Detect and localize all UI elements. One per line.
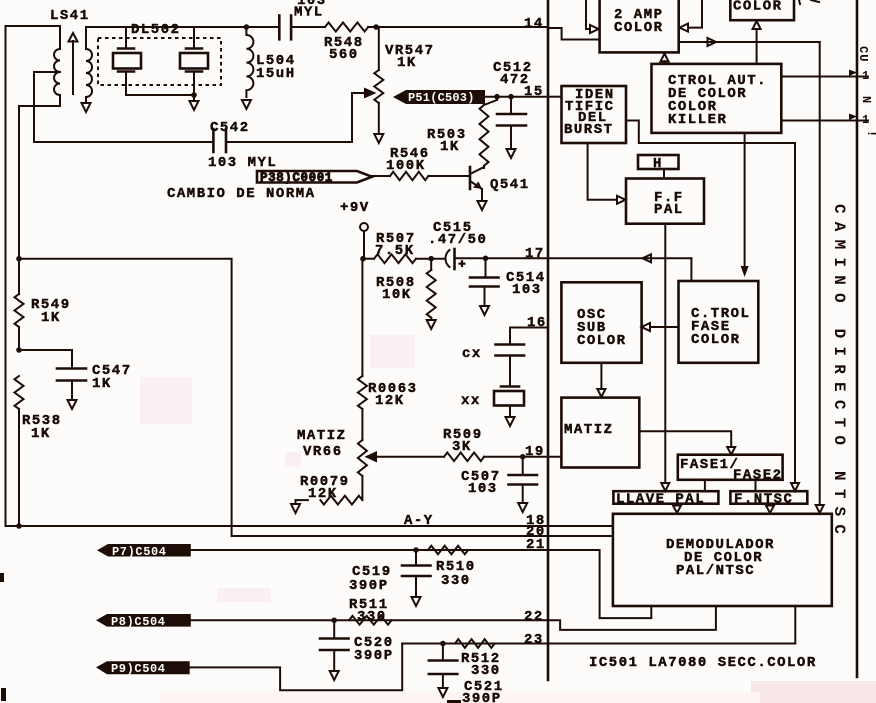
IC501 boundary line xyxy=(547,0,550,680)
junction dot C520 top xyxy=(331,618,337,624)
ground under C519 xyxy=(412,597,421,606)
label R503 1K xyxy=(427,127,467,155)
resistor R508 xyxy=(427,259,436,320)
svg-text:VR66: VR66 xyxy=(303,444,343,460)
wire CTRLAUT to 2AMP bottom with up arrow xyxy=(661,54,669,64)
ground under VR547 xyxy=(374,134,383,143)
label R511 330 xyxy=(349,597,389,625)
label R548 560 xyxy=(324,35,364,63)
label C507 103 xyxy=(461,469,501,497)
connector P51(C503) xyxy=(393,90,485,105)
wire CTROL AUT to C.TROL FASE with solid arrow xyxy=(741,133,749,277)
svg-text:P51(C503): P51(C503) xyxy=(408,91,475,105)
svg-text:COLOR: COLOR xyxy=(733,0,783,15)
svg-text:1: 1 xyxy=(862,69,870,83)
resistor R538 xyxy=(15,376,24,526)
resistor R509 xyxy=(444,453,484,462)
svg-text:!: ! xyxy=(864,130,876,138)
block F.NTSC xyxy=(730,491,807,507)
resistor R548 xyxy=(325,23,368,32)
block H xyxy=(638,155,679,172)
junction dot C507 top xyxy=(520,454,526,460)
svg-text:COLOR: COLOR xyxy=(691,332,741,348)
block 2 AMP COLOR xyxy=(600,0,679,52)
wire pin14 into 2AMP block xyxy=(548,28,600,40)
wire top right into 2AMP with arrow xyxy=(680,0,703,32)
ground under C547 xyxy=(68,400,77,409)
svg-text:LLAVE PAL: LLAVE PAL xyxy=(616,492,705,508)
svg-text:103 MYL: 103 MYL xyxy=(208,155,277,171)
connector P8(C504) xyxy=(96,614,191,629)
label VR547 1K xyxy=(385,43,435,71)
transformer LS41 primary winding xyxy=(54,49,60,95)
resistor R0063 xyxy=(358,259,367,440)
svg-text:N: N xyxy=(859,96,873,104)
wire R507-C515 xyxy=(416,258,444,260)
capacitor C521 xyxy=(429,644,458,687)
ground under C521 xyxy=(438,688,447,697)
svg-text:1K: 1K xyxy=(440,139,460,155)
block COLOR (top, cut off) xyxy=(730,0,794,20)
capacitor C542 xyxy=(34,129,351,152)
right edge cut glyphs xyxy=(856,46,876,138)
wire CTROL AUT out right 2 with solid arrow xyxy=(781,114,868,121)
label C519 390P xyxy=(349,564,392,594)
junction dot R508 top xyxy=(428,256,434,262)
ground under C512 xyxy=(507,149,516,158)
arrow into F.NTSC top xyxy=(791,483,799,491)
faint scan tint patches xyxy=(140,335,876,703)
junction dot C519 top xyxy=(413,547,419,553)
potentiometer VR547 xyxy=(352,27,383,142)
svg-text:KILLER: KILLER xyxy=(668,112,727,128)
bottom small mark xyxy=(447,700,461,703)
svg-text:MYL: MYL xyxy=(294,5,324,21)
label R507 7.5K xyxy=(375,231,416,259)
wire pin17 xyxy=(486,257,549,259)
block F.F PAL xyxy=(626,179,704,224)
wire CTRLAUT to COLOR with up arrow xyxy=(753,21,761,64)
capacitor 103 MYL (top) xyxy=(246,16,325,40)
junction dot C547 tap xyxy=(16,347,22,353)
resistor R549 xyxy=(15,259,24,350)
ground under R0079 xyxy=(291,504,300,513)
crystal DL502-b xyxy=(180,27,208,101)
svg-text:12K: 12K xyxy=(375,393,405,409)
junction dot DL502 bottoms xyxy=(191,92,197,98)
svg-text:BURST: BURST xyxy=(564,122,614,138)
junction dot VR547 top xyxy=(373,24,379,30)
wire right rail down to DEMOD with arrow xyxy=(816,42,824,513)
terminal +9V xyxy=(360,223,368,259)
wire pin20 xyxy=(232,535,613,537)
capacitor C519 xyxy=(402,550,431,595)
capacitor C520 xyxy=(320,620,349,669)
svg-text:P7)C504: P7)C504 xyxy=(112,545,167,559)
svg-text:19: 19 xyxy=(525,444,545,460)
svg-text:22: 22 xyxy=(524,609,544,625)
block DEMODULADOR DE COLOR PAL/NTSC xyxy=(613,514,832,606)
transformer LS41 core arrow up xyxy=(69,33,78,94)
wire R549-top to mid column rail xyxy=(19,259,232,536)
svg-text:15: 15 xyxy=(524,84,544,100)
svg-text:16: 16 xyxy=(527,315,547,331)
svg-text:3K: 3K xyxy=(452,439,472,455)
svg-text:P38)C0001: P38)C0001 xyxy=(260,171,333,185)
wire BURST to F.NTSC rail xyxy=(626,121,795,483)
svg-text:A-Y: A-Y xyxy=(404,513,434,529)
svg-text:330: 330 xyxy=(357,609,387,625)
capacitor cx xyxy=(496,345,525,387)
wire pin15 to BURST block xyxy=(548,96,562,98)
wire pin21 from P7 to DEMOD xyxy=(191,550,652,618)
wire pin19 xyxy=(484,456,561,458)
crystal xx xyxy=(494,387,524,417)
connector P7(C504) xyxy=(97,544,191,559)
wire CTROL AUT out right 1 with solid arrow xyxy=(781,70,868,77)
svg-text:103: 103 xyxy=(512,282,542,298)
svg-text:23: 23 xyxy=(524,632,544,648)
svg-text:MATIZ: MATIZ xyxy=(297,428,347,444)
wire P9 to pin23 node xyxy=(190,644,403,691)
wire H to FF PAL xyxy=(663,169,665,179)
label R538 1K xyxy=(22,413,62,442)
svg-text:Q541: Q541 xyxy=(490,177,530,193)
svg-text:1K: 1K xyxy=(41,310,61,326)
svg-text:CAMINO DIRECTO NTSC: CAMINO DIRECTO NTSC xyxy=(830,204,848,542)
label 103 MYL (top) xyxy=(294,0,327,21)
inductor L504 xyxy=(246,27,253,97)
ground under DL502 xyxy=(190,101,199,110)
right border line xyxy=(856,0,859,677)
svg-text:14: 14 xyxy=(524,16,544,32)
label C520 390P xyxy=(354,635,394,664)
junction dot R507 left xyxy=(360,256,366,262)
ground under xx xyxy=(506,417,515,426)
wire R548 to pin14 xyxy=(368,26,548,28)
label C515 .47/50 xyxy=(428,220,487,248)
DL502 dotted box xyxy=(98,38,221,85)
wire primary bottom to left rail 2 xyxy=(19,95,60,259)
crystal DL502-a xyxy=(113,27,194,95)
svg-text:MATIZ: MATIZ xyxy=(564,422,614,438)
connector P9(C504) xyxy=(96,661,190,676)
wire pin23 xyxy=(402,606,795,644)
svg-text:P9)C504: P9)C504 xyxy=(111,662,166,676)
label R546 100K xyxy=(386,146,430,174)
resistor R512 xyxy=(455,639,495,648)
svg-text:10K: 10K xyxy=(382,287,412,303)
svg-text:F.NTSC: F.NTSC xyxy=(734,492,793,508)
label C547 1K xyxy=(92,363,132,392)
svg-text:xx: xx xyxy=(461,393,481,409)
bottom-left corner mark xyxy=(1,688,6,701)
svg-text:560: 560 xyxy=(329,47,359,63)
resistor R0079 xyxy=(296,496,363,505)
resistor R511 xyxy=(349,616,392,625)
label R0079 12K xyxy=(300,474,350,502)
ground under secondary xyxy=(82,97,91,112)
wire MATIZ to FASE1/FASE2 with arrow xyxy=(639,431,735,454)
wire P51 to pin15 xyxy=(485,96,548,98)
wire top feed into 2AMP with arrow xyxy=(586,0,599,33)
svg-text:390P: 390P xyxy=(462,691,502,703)
ground under C514 xyxy=(480,306,489,315)
svg-text:330: 330 xyxy=(441,573,471,589)
svg-text:390P: 390P xyxy=(354,648,394,664)
svg-text:IC501 LA7080 SECC.COLOR: IC501 LA7080 SECC.COLOR xyxy=(589,655,817,671)
junction dot C521 top xyxy=(440,641,446,647)
ground under C507 xyxy=(518,503,527,512)
svg-text:C542: C542 xyxy=(210,120,250,136)
svg-text:H: H xyxy=(653,156,663,172)
junction dot L504 top xyxy=(244,24,250,30)
svg-text:1K: 1K xyxy=(92,376,112,392)
block FASE1/FASE2 xyxy=(678,455,783,484)
resistor R503 xyxy=(480,97,498,168)
block IDENTIFIC DEL BURST xyxy=(562,86,627,143)
wire R507 to C515 xyxy=(363,258,374,260)
wire pin17 to C.TROL FASE with arrow xyxy=(548,254,691,281)
top edge cut marks xyxy=(799,0,819,4)
svg-text:103: 103 xyxy=(468,481,498,497)
svg-text:1: 1 xyxy=(862,113,870,127)
block C.TROL FASE COLOR xyxy=(679,281,759,363)
label L504 15uH xyxy=(256,53,296,82)
capacitor C514 xyxy=(470,258,499,304)
svg-text:CAMBIO DE NORMA: CAMBIO DE NORMA xyxy=(167,186,316,202)
svg-text:FASE2: FASE2 xyxy=(733,468,783,484)
svg-text:100K: 100K xyxy=(386,158,426,174)
label R0063 12K xyxy=(368,381,418,409)
svg-text:LS41: LS41 xyxy=(50,8,90,24)
svg-text:12K: 12K xyxy=(308,486,338,502)
label R510 330 xyxy=(436,559,476,589)
capacitor C507 xyxy=(509,457,538,501)
capacitor C547 xyxy=(19,350,86,398)
svg-text:.47/50: .47/50 xyxy=(428,232,487,248)
capacitor C512 xyxy=(497,97,526,147)
resistor R510 xyxy=(428,546,468,555)
svg-text:FASE1/: FASE1/ xyxy=(680,457,739,473)
svg-text:P8)C504: P8)C504 xyxy=(111,615,166,629)
svg-text:COLOR: COLOR xyxy=(614,20,664,36)
label MATIZ VR66 xyxy=(297,428,347,460)
svg-text:7.5K: 7.5K xyxy=(375,243,415,259)
wire FF PAL down to LLAVE PAL with arrow xyxy=(661,224,669,491)
label R549 1K xyxy=(31,297,71,326)
block LLAVE PAL xyxy=(613,491,718,507)
wire OSC to MATIZ with arrow xyxy=(597,363,605,397)
svg-text:1K: 1K xyxy=(397,55,417,71)
wire C.TROL FASE to OSC with arrow xyxy=(642,323,679,331)
label C512 472 xyxy=(493,60,533,88)
capacitor C515 (polarized) xyxy=(445,249,485,269)
wire FASE to F.NTSC xyxy=(755,480,757,491)
junction dot C514 top xyxy=(483,255,489,261)
ground under C520 xyxy=(330,671,339,680)
label R509 3K xyxy=(443,427,483,455)
svg-text:PAL/NTSC: PAL/NTSC xyxy=(676,563,755,579)
label R508 10K xyxy=(376,275,416,303)
left edge mark xyxy=(0,573,4,582)
connector P38(C0001) xyxy=(257,171,372,185)
wire A-Y rail pin18 xyxy=(6,525,613,527)
block CTROL AUT DE COLOR COLOR KILLER xyxy=(652,64,782,133)
ground under Q541 xyxy=(478,201,487,210)
label C521 390P xyxy=(462,679,504,703)
wire 2AMP to right rail with arrow xyxy=(679,38,820,46)
svg-text:390P: 390P xyxy=(349,578,389,594)
transistor Q541 xyxy=(470,167,484,199)
resistor R546 xyxy=(372,172,469,180)
wire pin16 to cx xyxy=(510,328,548,345)
ground under R508 xyxy=(427,320,436,329)
wire FASE to LLAVE PAL xyxy=(704,480,706,491)
wire BURST bottom to FF PAL with arrow xyxy=(588,143,626,204)
svg-text:COLOR: COLOR xyxy=(577,333,627,349)
transformer LS41 secondary winding xyxy=(86,49,92,97)
node junction left rail / R549 top xyxy=(16,256,22,262)
resistor R507 xyxy=(374,254,416,263)
label C542 103 MYL xyxy=(208,120,277,171)
svg-text:+9V: +9V xyxy=(340,200,370,216)
svg-text:DL502: DL502 xyxy=(131,22,181,38)
svg-text:PAL: PAL xyxy=(654,202,684,218)
svg-text:cx: cx xyxy=(462,346,482,362)
ground under L504 xyxy=(242,100,251,109)
svg-text:1K: 1K xyxy=(31,426,51,442)
block MATIZ xyxy=(561,398,639,468)
svg-text:330: 330 xyxy=(471,663,501,679)
potentiometer VR66 xyxy=(358,440,444,500)
wire LLAVE PAL to DEMOD with arrow xyxy=(673,504,681,513)
junction dots pin15 wire xyxy=(494,94,514,100)
block OSC SUB COLOR xyxy=(561,282,641,363)
wire F.NTSC to DEMOD with arrow xyxy=(766,504,774,513)
svg-text:17: 17 xyxy=(525,246,545,262)
wire top-left from left rail to primary top xyxy=(6,26,61,526)
wire pin22 from P8 to DEMOD xyxy=(191,606,716,630)
label R512 330 xyxy=(461,651,501,679)
svg-text:CU: CU xyxy=(856,46,870,62)
svg-text:15uH: 15uH xyxy=(256,66,296,82)
wire primary tap xyxy=(34,72,60,142)
wire secondary top to DL502/L504 rail xyxy=(86,27,246,49)
label C514 103 xyxy=(506,270,546,298)
junction dot A-Y / R538 xyxy=(16,523,22,529)
